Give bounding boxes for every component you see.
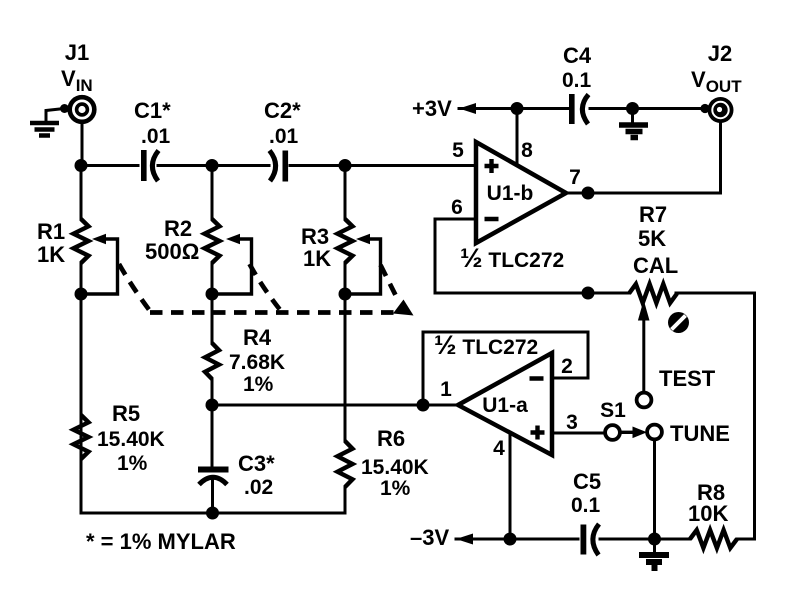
svg-text:15.40K: 15.40K: [97, 428, 165, 451]
resistor R5: [74, 415, 89, 459]
svg-text:5K: 5K: [638, 226, 666, 251]
wire U1-a feedback rectangle: [423, 332, 588, 405]
op-amp U1-b: [476, 142, 566, 243]
svg-text:R2: R2: [164, 216, 192, 241]
node pin4 rail: [504, 533, 517, 546]
wire J1 ground stub: [46, 109, 64, 122]
op-amp U1-a: [458, 353, 552, 455]
node bus-R3: [339, 159, 352, 172]
node feedback bottom: [582, 287, 595, 300]
svg-text:0.1: 0.1: [571, 494, 601, 517]
wire R3 column: [344, 166, 347, 514]
capacitor C5: [581, 524, 600, 555]
svg-text:1: 1: [440, 378, 452, 401]
wire bottom rail: [81, 512, 345, 515]
svg-text:TUNE: TUNE: [670, 421, 730, 446]
svg-text:8: 8: [521, 139, 533, 162]
svg-text:C2*: C2*: [264, 98, 301, 123]
svg-text:1%: 1%: [243, 373, 274, 396]
svg-text:1K: 1K: [37, 242, 65, 267]
svg-text:C1*: C1*: [134, 98, 171, 123]
svg-text:S1: S1: [600, 399, 626, 422]
svg-text:J1: J1: [65, 40, 89, 65]
svg-text:J2: J2: [708, 41, 732, 66]
node R4 bottom: [206, 399, 219, 412]
resistor R3: [338, 219, 353, 263]
wire +3V rail: [459, 107, 708, 110]
wire U1-a pin3 to S1: [552, 432, 604, 435]
svg-text:CAL: CAL: [633, 253, 678, 278]
node C3 bottom rail: [206, 507, 219, 520]
svg-text:C3*: C3*: [238, 451, 275, 476]
svg-text:–3V: –3V: [410, 525, 449, 550]
node bus-J1: [75, 159, 88, 172]
wire J1 column down: [81, 123, 82, 513]
svg-text:C5: C5: [573, 469, 601, 494]
svg-text:C4: C4: [563, 43, 592, 68]
svg-text:7: 7: [569, 166, 581, 189]
svg-text:0.1: 0.1: [562, 69, 592, 92]
wire U1-a output row y=405: [212, 404, 458, 407]
node R3 bottom: [339, 288, 352, 301]
svg-text:R7: R7: [639, 202, 667, 227]
wire feedback row y=293: [435, 292, 755, 295]
svg-text:TEST: TEST: [659, 366, 716, 391]
svg-text:5: 5: [452, 139, 464, 162]
screw adjust symbol: [668, 312, 689, 333]
wire main input bus y=165: [81, 164, 476, 167]
connector J1: [70, 97, 95, 122]
connector J2: [700, 97, 733, 123]
resistor R8: [690, 530, 737, 548]
node C4 ground rail: [626, 102, 639, 115]
svg-text:1K: 1K: [303, 246, 331, 271]
resistor R6: [338, 441, 353, 487]
svg-text:.02: .02: [244, 476, 273, 499]
arrow +3V: [459, 103, 476, 114]
wire R2 column: [211, 166, 215, 514]
resistor R1: [74, 219, 89, 263]
resistor R7: [629, 284, 677, 303]
svg-text:15.40K: 15.40K: [361, 456, 429, 479]
wire U1-b pin8: [516, 109, 519, 166]
svg-text:* = 1% MYLAR: * = 1% MYLAR: [86, 529, 236, 554]
arrow -3V: [456, 534, 473, 545]
svg-text:1%: 1%: [380, 477, 411, 500]
svg-text:2: 2: [561, 355, 573, 378]
svg-text:3: 3: [566, 411, 578, 434]
node TEST contact: [637, 393, 652, 408]
node TUNE rail: [648, 533, 661, 546]
node bus-R2: [206, 159, 219, 172]
resistor R4: [205, 343, 219, 379]
resistor R2: [205, 219, 220, 263]
pot R7 wiper arrow: [638, 300, 650, 321]
svg-text:R1: R1: [37, 219, 65, 244]
pot R3 wiper: [345, 239, 381, 294]
node J1 stub dot: [60, 104, 69, 113]
wire U1-b output to J2: [566, 123, 721, 193]
capacitor C3: [198, 467, 229, 485]
svg-text:500Ω: 500Ω: [145, 239, 199, 264]
svg-text:1%: 1%: [117, 452, 148, 475]
svg-text:10K: 10K: [688, 501, 728, 526]
svg-text:R6: R6: [377, 426, 405, 451]
node R2 bottom: [206, 288, 219, 301]
svg-text:R5: R5: [112, 401, 140, 426]
svg-text:7.68K: 7.68K: [229, 351, 285, 374]
switch S1: [605, 425, 620, 440]
node pin8 rail: [511, 102, 524, 115]
svg-text:R4: R4: [243, 325, 272, 350]
svg-text:U1-a: U1-a: [482, 394, 528, 417]
wire right vertical: [753, 293, 756, 539]
ground (J1): [30, 123, 59, 136]
svg-text:+3V: +3V: [412, 96, 452, 121]
wire TUNE ground stub: [653, 539, 656, 552]
pot R1 wiper: [81, 239, 118, 294]
node R1 bottom: [75, 288, 88, 301]
wire U1-b pin6: [435, 219, 476, 293]
ground (C4 rail): [619, 125, 648, 138]
svg-text:4: 4: [493, 437, 505, 460]
node feedback left: [417, 399, 430, 412]
svg-text:.01: .01: [269, 125, 299, 148]
ground (TUNE): [639, 555, 669, 568]
wire C4 ground stub: [631, 109, 634, 123]
capacitor C4: [569, 94, 589, 124]
wire R7 wiper to TEST: [642, 318, 645, 393]
wire -3V rail: [456, 538, 755, 541]
svg-text:6: 6: [451, 196, 463, 219]
pot R2 wiper: [212, 239, 252, 294]
wire TUNE column: [653, 440, 656, 540]
node output pin7: [582, 187, 595, 200]
capacitor C2: [270, 151, 289, 182]
gang dashed line: [119, 264, 399, 313]
svg-text:.01: .01: [141, 125, 171, 148]
wire U1-a pin4: [509, 433, 512, 539]
capacitor C1: [141, 150, 159, 181]
svg-text:U1-b: U1-b: [487, 182, 534, 205]
